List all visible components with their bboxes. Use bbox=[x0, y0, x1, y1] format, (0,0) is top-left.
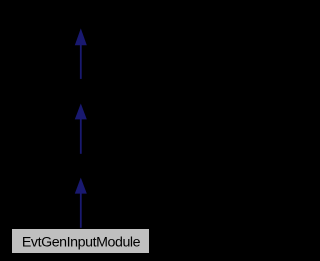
svg-text:EvtGenInputModule: EvtGenInputModule bbox=[22, 235, 141, 251]
